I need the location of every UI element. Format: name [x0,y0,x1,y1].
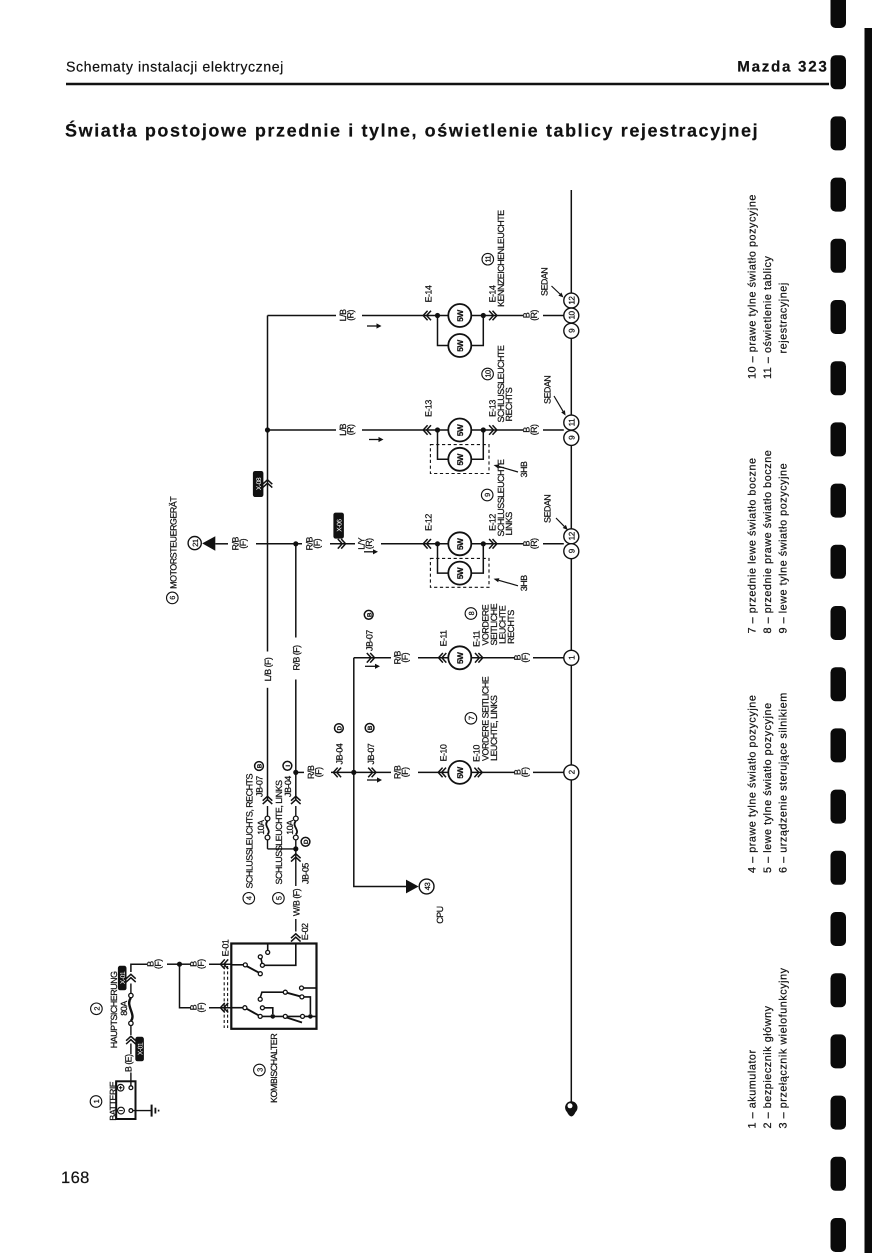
svg-text:(F): (F) [312,538,322,548]
svg-text:RECHTS: RECHTS [506,610,516,644]
switch contact J branch [300,995,311,1014]
svg-text:6: 6 [168,596,177,600]
switch blade K to J [287,993,300,997]
svg-text:rejestracyjnej: rejestracyjnej [777,282,789,353]
label E-10 right [472,745,482,762]
label JB-04 fuse [283,776,293,797]
item number 4 [243,893,255,905]
connector chevron E-10 right [474,768,482,778]
svg-text:(F): (F) [520,652,530,662]
wire battery to main fuse [130,1044,132,1086]
dashed box 3HB E-12 [430,558,489,587]
header running title [66,60,284,76]
svg-text:80A: 80A [119,1001,129,1016]
wire label B (F) E-11 [513,652,531,662]
svg-text:10 – prawe tylne światło pozyc: 10 – prawe tylne światło pozycyjne [747,194,759,379]
wire label R/B (F) E-12 a [231,537,249,551]
junction lower bus b [308,1014,313,1019]
fuse 10A right [293,806,298,849]
wire label B (F) feed c [189,1002,207,1012]
connector X-01 label lower [135,1037,144,1062]
junction E-13 right [481,427,486,432]
wire label B (E) [124,1054,134,1072]
connector pin 1 (E-11) [564,650,579,665]
svg-text:X-01: X-01 [138,1042,145,1055]
label E-12 left [423,514,433,531]
svg-text:SCHLUSSLEUCHTE, LINKS: SCHLUSSLEUCHTE, LINKS [274,780,284,885]
label E-11 left [439,630,449,647]
label KOMBISCHALTER [269,1033,279,1103]
svg-text:B (E): B (E) [124,1054,134,1072]
label VORDERE SEITLICHE LEUCHTE LINKS [481,676,499,761]
connector JB-07 chevron E-10 [368,768,376,778]
junction E-14 left [435,313,440,318]
connector pin 21 motorsteuergeraet [188,537,201,550]
wire label R/B (F) vertical [291,645,301,671]
label E-13 right [487,400,497,417]
svg-text:4: 4 [245,896,254,900]
switch contact N branch [260,1006,272,1014]
svg-text:X-06: X-06 [337,519,344,532]
svg-text:3HB: 3HB [519,575,529,591]
label BATTERIE [108,1081,118,1120]
wire E-14 second bulb loop [438,316,484,346]
main fuse HAUPTSICHERUNG 80A [129,984,133,1036]
svg-text:3HB: 3HB [519,461,529,477]
connector JB-04 chevron above fuse right [291,796,301,804]
label VORDERE SEITLICHE LEUCHTE RECHTS [481,603,516,645]
svg-text:Mazda 323: Mazda 323 [737,59,828,76]
svg-text:JB-04: JB-04 [283,776,293,797]
current direction arrow E-11 [365,664,380,669]
connector E-02 chevron [291,934,301,942]
svg-text:5W: 5W [456,310,465,322]
connector pins 11/9 (E-13 branch, sedan) [564,415,579,445]
svg-text:I: I [285,765,292,767]
svg-text:10: 10 [484,370,493,378]
connector pins 12/10/9 (E-14 branch, sedan) [564,293,579,338]
label E-13 left [423,400,433,417]
lamp E-13 bulb 1 5W [448,419,471,442]
item number 10 [482,368,494,380]
item number 2 [91,1003,103,1015]
svg-text:X-01: X-01 [120,971,127,984]
label 3HB arrow E-13 [494,461,530,477]
label E-01 [220,939,230,956]
item number 8 [465,608,477,620]
junction L/B at E-13 row [265,427,270,432]
item number 1 [90,1096,102,1108]
connector chevron switch lower entry [220,1003,228,1013]
fuse 10A left [265,806,270,849]
svg-text:X-08: X-08 [256,477,263,490]
junction E-12 right [481,541,486,546]
connector chevron E-13 left [423,425,431,435]
svg-text:E-01: E-01 [220,939,230,956]
wire E-10 branch [296,771,564,773]
page title [65,121,759,141]
junction E-14 right [481,313,486,318]
svg-text:8: 8 [467,611,476,615]
svg-text:E-12: E-12 [423,514,433,531]
node SEDAN label E-13 [542,376,565,416]
svg-text:9: 9 [483,493,492,497]
label SCHLUSSLEUCHTE LINKS [496,459,514,536]
wire E-14 branch [268,315,564,317]
wire label B (R) E-13 [522,424,540,435]
wire E-12 branch [215,543,564,545]
svg-text:5 – lewe tylne światło pozycyj: 5 – lewe tylne światło pozycyjne [762,702,774,873]
svg-text:43: 43 [423,883,432,891]
item number 3 [254,1064,266,1076]
connector chevron E-12 left [423,539,431,549]
lamp E-12 bulb 2 5W [448,562,471,585]
svg-text:(R): (R) [346,424,356,435]
svg-text:11: 11 [484,255,493,262]
svg-text:LINKS: LINKS [504,512,514,536]
item number 6 [167,592,179,604]
connector letter B E-11 [364,610,373,619]
switch upper: contact and blade [231,963,262,976]
svg-text:5W: 5W [456,538,465,550]
wire label R/B (F) E-11 [393,651,411,665]
svg-text:Światła postojowe przednie i t: Światła postojowe przednie i tylne, oświ… [65,121,759,141]
lamp E-11 5W [448,646,471,669]
label JB-05 [301,863,311,884]
label E-14 left [423,285,433,302]
svg-text:SEDAN: SEDAN [539,268,549,296]
label 80A [119,1001,129,1016]
svg-text:HAUPTSICHERUNG: HAUPTSICHERUNG [109,971,119,1048]
svg-text:KOMBISCHALTER: KOMBISCHALTER [269,1033,279,1103]
svg-text:L/B (F): L/B (F) [263,657,273,681]
svg-text:JB-07: JB-07 [365,630,375,651]
item number 5 [273,893,285,905]
svg-text:2 – bezpiecznik główny: 2 – bezpiecznik główny [762,1005,774,1128]
switch lower contacts H I [283,1014,304,1018]
svg-text:LEUCHTE, LINKS: LEUCHTE, LINKS [489,695,499,761]
svg-text:(R): (R) [346,310,356,321]
wire label R/B (F) E-10 b [393,765,411,779]
svg-text:SEDAN: SEDAN [542,495,552,523]
svg-text:2: 2 [92,1007,101,1011]
label E-11 right [472,630,482,647]
wire label L/Y (R) [357,537,375,549]
svg-text:21: 21 [191,539,200,547]
connector X-08 label [253,471,264,497]
connector chevron switch top entry [220,959,228,969]
connector X-08 chevron [263,480,273,488]
svg-text:SEDAN: SEDAN [542,376,552,404]
label SCHLUSSLEUCHTE RECHTS [496,345,514,422]
svg-text:5W: 5W [456,453,465,465]
connector letter D JB-05 [301,837,310,846]
svg-text:D: D [303,839,310,844]
connector letter D E-10 [335,724,344,733]
wire label L/B (F) [263,657,273,681]
junction CPU feed at E-10 [351,770,356,775]
svg-text:BATTERIE: BATTERIE [108,1081,118,1120]
connector chevron E-11 left [439,653,447,663]
battery BATTERIE [116,1081,135,1119]
connector pins 12/9 (E-12 branch, sedan) [564,529,579,559]
item number 9 [481,489,493,501]
current direction arrow E-14 [367,323,382,328]
connector JB-04 chevron E-10 [333,768,341,778]
label E-14 right [487,285,497,302]
current direction arrow E-10 [367,777,382,782]
connector X-01 chevron lower [126,1036,136,1044]
svg-text:E-02: E-02 [300,923,310,940]
svg-text:5W: 5W [456,766,465,778]
wire E-13 branch [268,429,564,431]
svg-text:3 – przełącznik wielofunkcyjny: 3 – przełącznik wielofunkcyjny [777,967,789,1128]
connector JB-05 chevron [291,854,301,862]
connector chevron E-14 left [423,311,431,321]
svg-text:(R): (R) [364,538,374,549]
arrow to motor control unit [202,536,215,551]
svg-text:D: D [337,725,344,730]
wire feed branch down [180,964,232,1008]
svg-text:5W: 5W [456,652,465,664]
wire label L/B (R) E-13 [338,424,356,436]
junction lower bus a [271,1014,276,1019]
wire label B (F) feed a [146,959,164,969]
wire label B (F) E-10 [513,767,531,777]
lamp E-14 bulb 1 5W [448,304,471,327]
wire label B (R) E-14 [522,310,540,321]
svg-text:(F): (F) [400,767,410,777]
svg-text:W/B (F): W/B (F) [292,888,302,916]
connector chevron E-10 left [438,768,446,778]
svg-text:Schematy instalacji elektryczn: Schematy instalacji elektrycznej [66,60,284,76]
junction fuses join [293,846,298,851]
connector letter B E-10 [365,724,374,733]
wire label B (F) feed b [189,959,207,969]
wire E-11 branch [354,657,564,659]
connector chevron E-13 right [489,425,497,435]
svg-text:SCHLUSSLEUCHTS, RECHTS: SCHLUSSLEUCHTS, RECHTS [244,774,254,889]
svg-text:10A: 10A [285,820,295,835]
svg-text:B: B [257,763,264,768]
connector JB-07 chevron E-11 [367,653,375,663]
connector pin 2 (E-10) [564,765,579,780]
wire W/B down to switch [295,849,297,932]
svg-text:(R): (R) [529,538,539,549]
svg-text:7: 7 [467,716,476,720]
label E-10 left [439,744,449,761]
label KENNZEICHENLEUCHTE [496,210,506,307]
svg-text:JB-04: JB-04 [334,743,344,764]
svg-text:E-13: E-13 [423,400,433,417]
svg-text:JB-07: JB-07 [255,776,265,797]
legend item list [747,194,790,1128]
lamp E-14 bulb 2 5W [448,334,471,357]
connector pin 43 CPU [419,879,434,894]
junction feed split [177,962,182,967]
connector chevron E-12 right [489,539,497,549]
wire label R/B (F) E-12 b [305,537,323,551]
label E-12 right [487,514,497,531]
connector X-01 chevron upper [126,974,136,982]
svg-text:E-10: E-10 [439,744,449,761]
page number [61,1169,90,1187]
svg-text:(F): (F) [400,652,410,662]
label CPU [435,906,445,923]
current direction arrow E-12 [364,549,378,554]
connector letter I fuse right [283,761,292,770]
label JB-07 E-11 [365,630,375,651]
connector X-01 label upper [118,966,127,991]
wire E-12 second bulb loop [438,544,484,573]
page edge bar [865,28,872,1253]
svg-text:CPU: CPU [435,906,445,923]
svg-text:5W: 5W [456,567,465,579]
wire label R/B (F) E-10 a [306,765,324,779]
svg-text:MOTORSTEUERGERÄT: MOTORSTEUERGERÄT [168,496,178,589]
switch upper fixed contacts [258,944,269,968]
wire label L/B (R) [338,309,356,321]
connector dashed boundary E-01 [224,966,227,1028]
node SEDAN label E-12 [542,495,568,530]
connector X-06 label [333,513,344,539]
label HAUPTSICHERUNG [109,971,119,1048]
label JB-04 E-10 [334,743,344,764]
connector X-06 chevron [338,539,346,549]
lamp E-10 5W [448,761,471,784]
svg-text:5W: 5W [456,424,465,436]
svg-text:10: 10 [568,311,577,320]
wire main feed up and right [131,964,180,972]
svg-text:3: 3 [255,1068,264,1072]
header rule [66,83,829,85]
current direction arrow E-13 [369,437,384,442]
svg-text:B: B [367,725,374,730]
label 10A left [256,820,266,835]
svg-text:(F): (F) [520,767,530,777]
lamp E-13 bulb 2 5W [448,448,471,471]
label JB-07 E-10 [366,743,376,764]
wire label B (R) E-12 [522,538,540,549]
svg-text:(F): (F) [314,767,324,777]
svg-text:(F): (F) [196,959,206,969]
label JB-07 fuse [255,776,265,797]
switch blade open from H [287,1018,302,1023]
svg-text:5W: 5W [456,340,465,352]
wire E-13 second bulb loop [438,430,484,459]
ground point G at bus bottom [565,1101,577,1116]
svg-text:168: 168 [61,1169,90,1187]
svg-text:JB-05: JB-05 [301,863,311,884]
svg-text:R/B (F): R/B (F) [291,645,301,671]
wire L/B feed vertical [267,316,269,801]
svg-text:B: B [366,612,373,617]
svg-text:(R): (R) [529,424,539,435]
svg-text:(R): (R) [529,310,539,321]
switch lower bus line [262,1015,316,1017]
svg-text:JB-07: JB-07 [366,743,376,764]
connector letter B fuse left [255,762,264,771]
label SCHLUSSLEUCHTS RECHTS [244,774,254,889]
connector chevron E-11 right [475,653,483,663]
label MOTORSTEUERGERAET [168,496,178,589]
label 3HB arrow E-12 [494,575,530,591]
dashed box 3HB E-13 [430,445,489,474]
svg-text:11: 11 [568,418,577,426]
svg-text:4 – prawe tylne światło pozycy: 4 – prawe tylne światło pozycyjne [747,695,759,873]
junction R/B at E-12 row [293,541,298,546]
svg-text:12: 12 [568,531,577,540]
junction E-13 left [435,427,440,432]
connector chevron E-14 right [489,311,497,321]
switch lower: contact and blade [231,1006,262,1019]
item number 7 [465,713,477,725]
switch contact M branch [300,986,317,990]
svg-text:5: 5 [274,896,283,900]
svg-text:E-11: E-11 [439,630,449,647]
label SCHLUSSLEUCHTE LINKS fuse [274,780,284,885]
lamp E-12 bulb 1 5W [448,532,471,555]
wire label W/B (F) [292,888,302,916]
switch contact K L branch [258,990,287,1001]
junction E-12 left [435,541,440,546]
header model name [737,59,828,76]
svg-text:KENNZEICHENLEUCHTE: KENNZEICHENLEUCHTE [496,210,506,307]
wire R/B feed vertical [295,544,297,801]
wire feed to switch top [180,963,232,965]
item number 11 [482,253,494,265]
wire ground bus vertical [570,190,572,1103]
svg-text:6 – urządzenie sterujące silni: 6 – urządzenie sterujące silnikiem [777,692,789,873]
svg-text:(F): (F) [196,1002,206,1012]
svg-text:1 – akumulator: 1 – akumulator [747,1049,759,1128]
label 10A right [285,820,295,835]
wire fuse left to junction [268,848,296,850]
svg-text:10A: 10A [256,820,266,835]
wire W/B inside box [265,944,296,966]
svg-text:8 – przednie prawe światło boc: 8 – przednie prawe światło boczne [762,450,774,634]
arrow to CPU [406,880,419,894]
svg-text:7 – przednie lewe światło bocz: 7 – przednie lewe światło boczne [747,457,759,633]
svg-text:12: 12 [568,296,577,305]
label E-02 [300,923,310,940]
svg-text:1: 1 [92,1099,101,1103]
binder hole marks [831,0,847,1252]
wire CPU feed vertical [354,658,406,887]
junction R/B at E-10 row [293,770,298,775]
battery ground symbol [133,1105,159,1117]
svg-text:11 – oświetlenie tablicy: 11 – oświetlenie tablicy [762,256,774,379]
svg-text:(F): (F) [153,959,163,969]
switch box E-01 KOMBISCHALTER [231,944,316,1029]
node SEDAN label E-14 [539,268,563,298]
connector JB-07 chevron above fuse left [263,796,273,804]
svg-text:(F): (F) [238,538,248,548]
svg-text:9 – lewe tylne światło pozycyj: 9 – lewe tylne światło pozycyjne [777,463,789,634]
svg-text:E-14: E-14 [423,285,433,302]
svg-text:RECHTS: RECHTS [504,387,514,421]
